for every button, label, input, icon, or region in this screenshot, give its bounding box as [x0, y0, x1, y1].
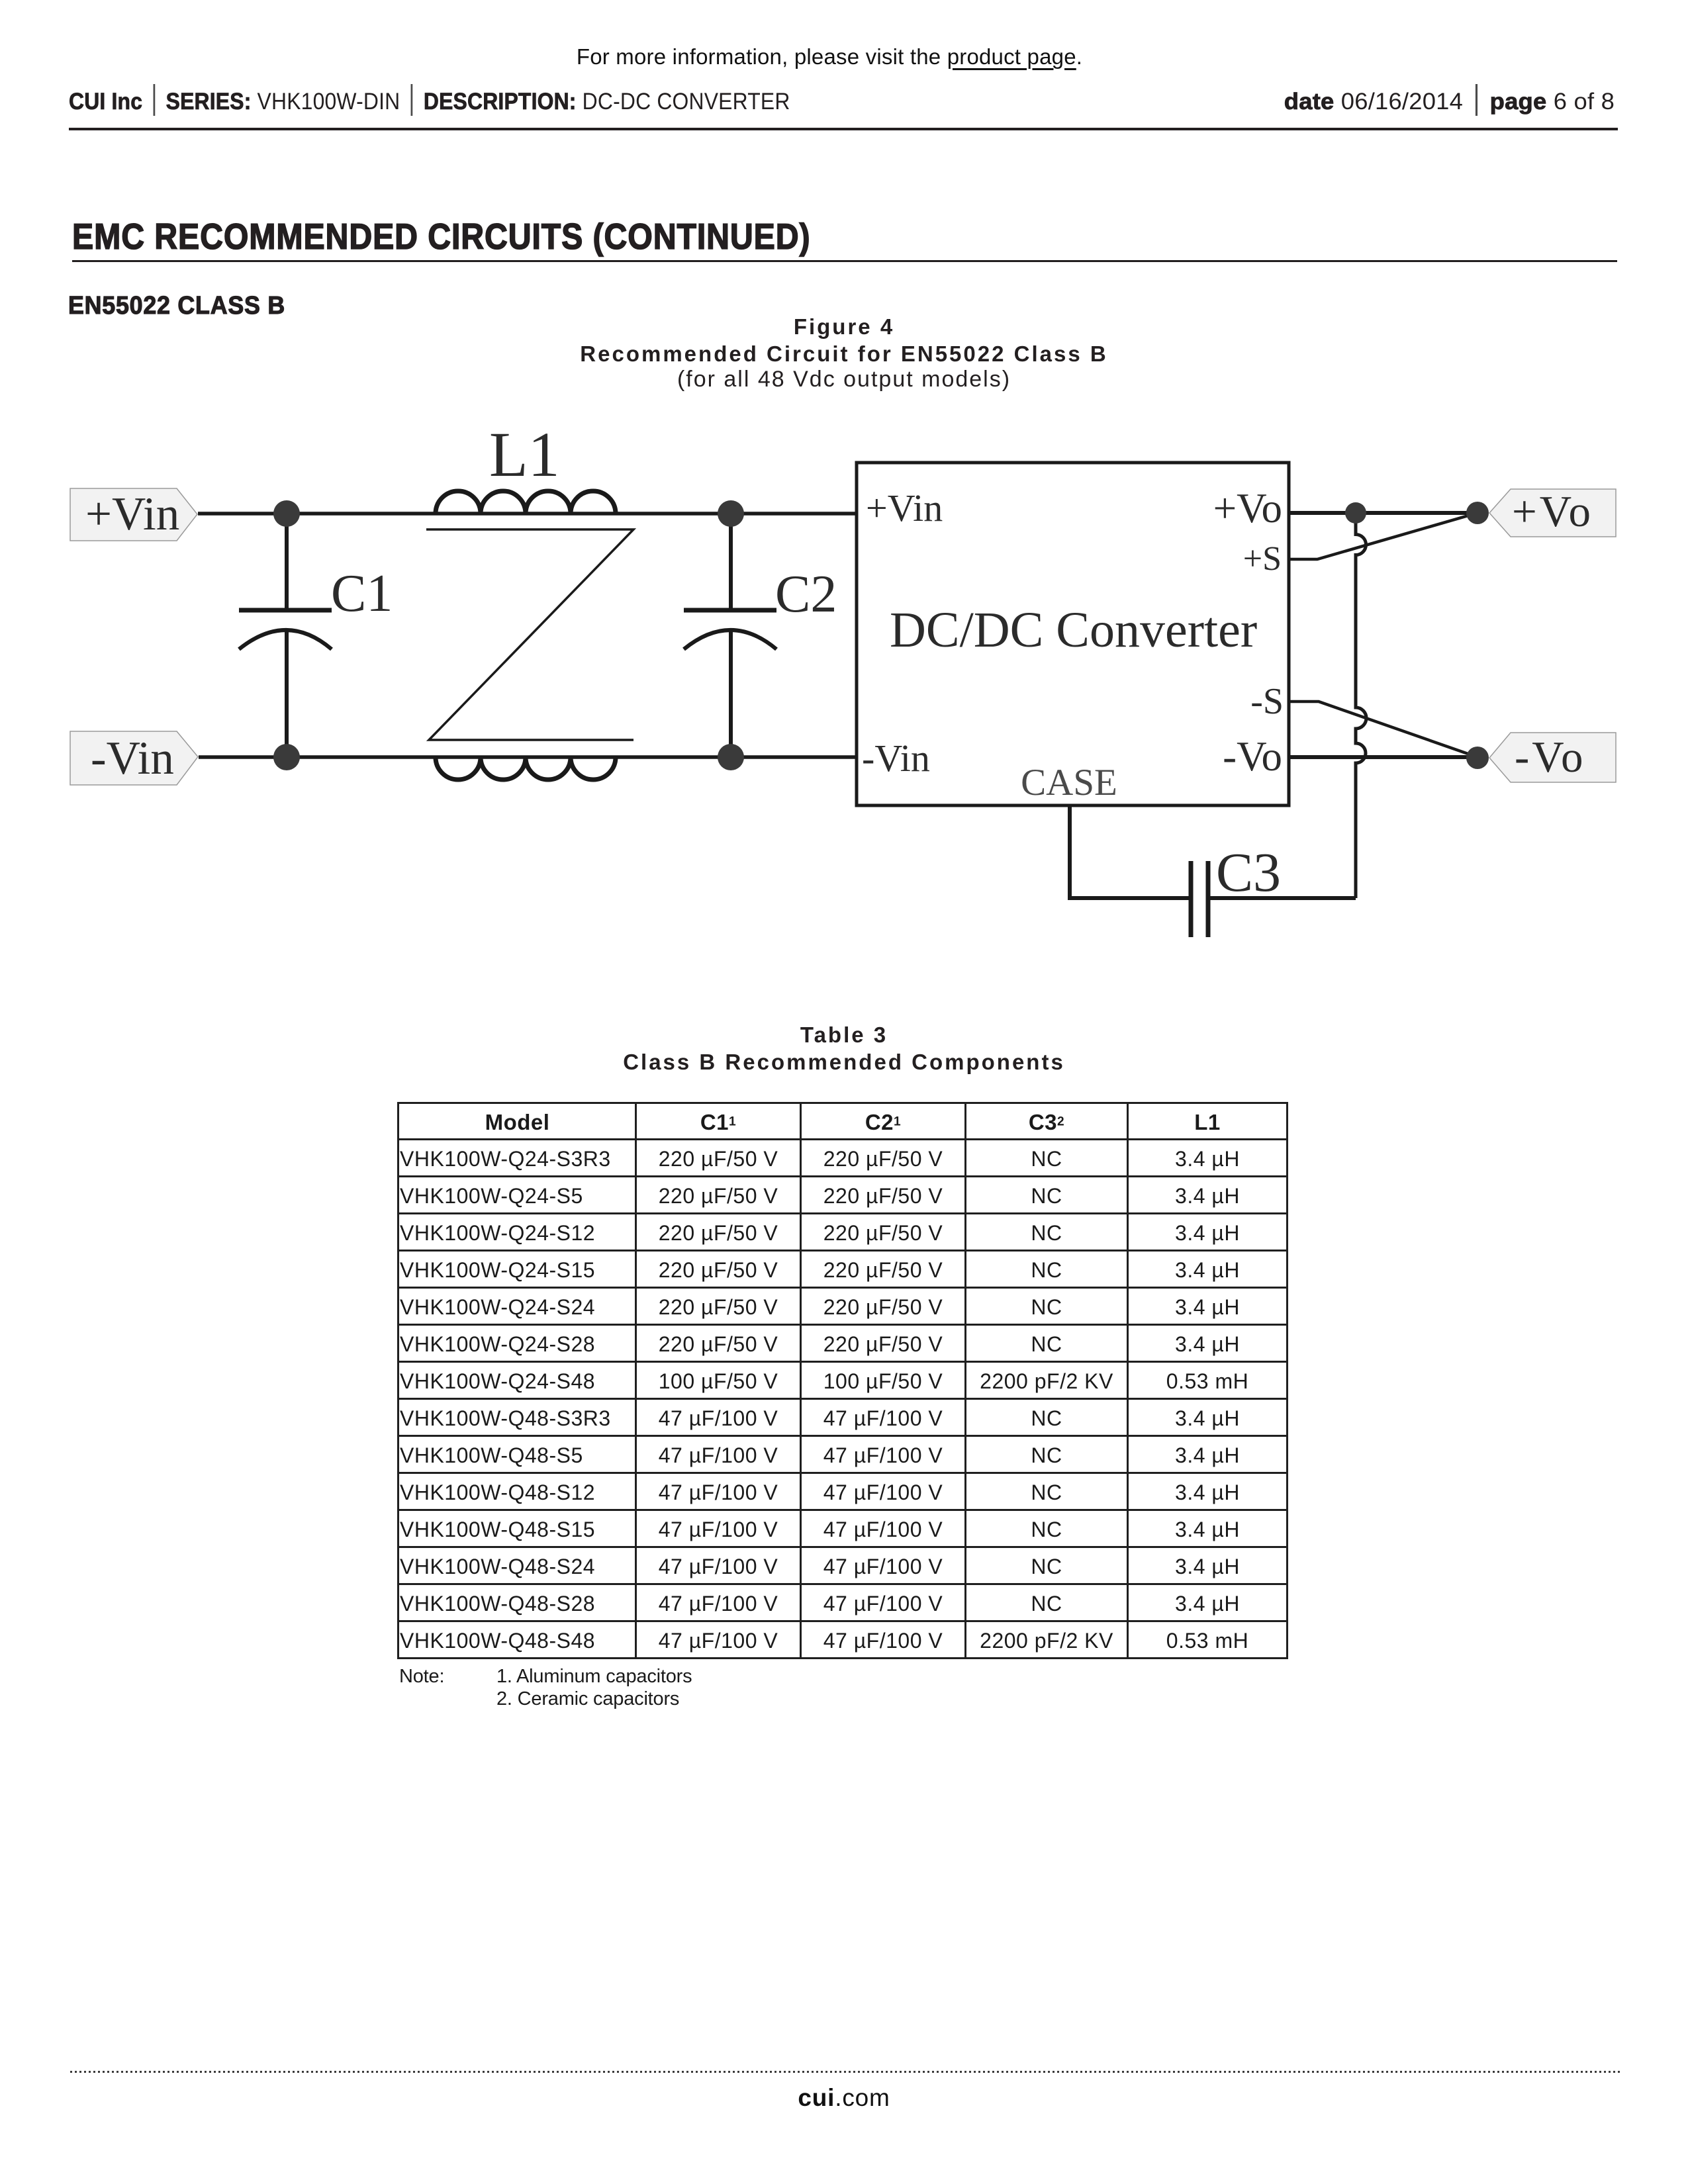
svg-text:-Vin: -Vin: [862, 737, 930, 780]
svg-text:+Vo: +Vo: [1512, 487, 1593, 536]
svg-text:-Vo: -Vo: [1223, 733, 1282, 780]
svg-text:-Vo: -Vo: [1515, 733, 1586, 782]
svg-text:-S: -S: [1250, 681, 1284, 722]
svg-text:CASE: CASE: [1021, 762, 1117, 803]
svg-text:+Vin: +Vin: [866, 486, 943, 529]
svg-text:C3: C3: [1216, 842, 1281, 903]
svg-text:L1: L1: [489, 419, 560, 490]
svg-text:C2: C2: [775, 565, 837, 623]
svg-text:+S: +S: [1243, 540, 1282, 578]
svg-text:DC/DC Converter: DC/DC Converter: [890, 602, 1257, 658]
svg-text:C1: C1: [331, 565, 393, 623]
svg-text:+Vin: +Vin: [85, 488, 179, 540]
svg-text:+Vo: +Vo: [1213, 485, 1282, 531]
svg-text:-Vin: -Vin: [91, 733, 174, 784]
